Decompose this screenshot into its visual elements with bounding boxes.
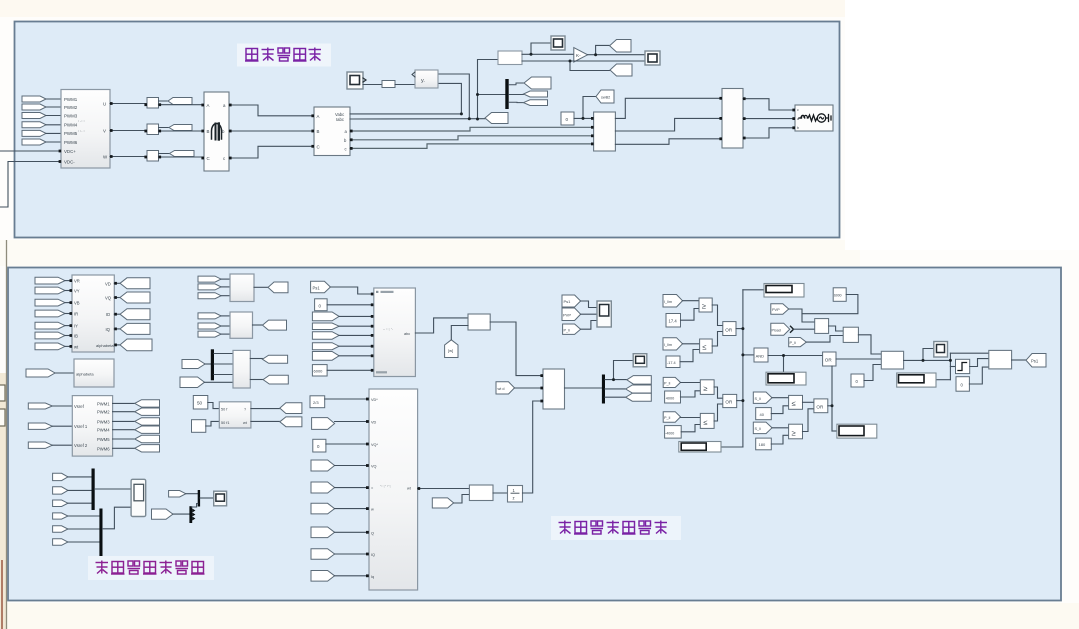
svg-text:2/3: 2/3 <box>313 400 319 405</box>
wire Vabc to PLL <box>350 83 461 114</box>
wire B1 to scope N <box>95 488 131 490</box>
svg-text:PWM1: PWM1 <box>97 401 110 406</box>
block U6 filter <box>722 89 743 149</box>
wire c1 to bar B3 <box>186 493 198 495</box>
constant 6000 <box>312 365 327 376</box>
svg-text:y.: y. <box>421 78 425 84</box>
from tag Pload <box>771 323 794 335</box>
wire UG to UH <box>490 322 543 376</box>
svg-text:alphabeta: alphabeta <box>76 372 94 377</box>
from tag Ps top <box>562 295 581 307</box>
goto tag b <box>524 91 548 97</box>
from tag j9 <box>311 571 335 582</box>
block UB alphabeta <box>74 359 114 387</box>
wire branch to display S2 <box>531 43 551 54</box>
svg-text:-4000: -4000 <box>665 431 674 435</box>
wire sat to UQ <box>970 359 989 367</box>
title 逆变器观测模块 <box>96 561 205 575</box>
svg-text:VDC+: VDC+ <box>64 149 76 154</box>
block mean <box>498 51 522 65</box>
wire PWM5 to U1 <box>46 132 61 134</box>
wire LE1 to OR1 <box>712 332 723 347</box>
block UC <box>230 274 254 302</box>
svg-text:OR: OR <box>825 358 833 363</box>
from tag IQ2 <box>312 352 339 361</box>
from tag j6 <box>311 503 335 514</box>
svg-text:OR: OR <box>816 405 824 410</box>
wire branch to swB2 tag <box>583 97 596 119</box>
block UG <box>468 314 490 330</box>
svg-text:IQ: IQ <box>106 327 111 332</box>
junction Iabc mean <box>476 118 479 121</box>
inport Vsref <box>28 403 52 409</box>
from tag Ps1 <box>311 281 331 292</box>
svg-text:VQ: VQ <box>371 465 377 469</box>
goto tag UE2 <box>263 375 288 384</box>
wire j9 to UJ <box>335 575 369 577</box>
wire Plim-c to S2 <box>806 336 843 343</box>
wire U6 out1 to load <box>743 99 795 110</box>
wire slim to PLL <box>395 84 415 86</box>
wire wtd to UH <box>515 387 544 389</box>
block white square M2 <box>192 420 206 433</box>
svg-text:OR: OR <box>725 400 733 405</box>
goto tag W <box>170 151 195 157</box>
wire -17.4 to LE1 <box>680 350 700 362</box>
inport Vsref1 <box>28 423 52 429</box>
wire k2 to UK <box>454 495 470 504</box>
svg-text:swB2: swB2 <box>601 96 610 100</box>
inport PWM5 <box>22 130 46 136</box>
wire U6 out2 to load <box>743 118 795 120</box>
block PLL <box>412 70 438 88</box>
wire 0d to UQ <box>969 367 988 384</box>
wire Iabc up branch <box>438 74 469 119</box>
inport b4 <box>53 513 68 519</box>
subsystem UL PWM generator <box>72 396 112 457</box>
goto tag UE1 <box>262 355 287 363</box>
svg-text:ID: ID <box>106 312 110 317</box>
svg-text:PWM5: PWM5 <box>64 131 78 136</box>
wire branch to scope C <box>614 361 634 380</box>
title 逆变器控制模块 <box>559 521 668 535</box>
block UH mux <box>543 369 565 409</box>
wire mean line B <box>522 60 645 62</box>
from tag Ilim1 <box>663 295 683 308</box>
svg-text:IR: IR <box>74 312 78 317</box>
wire ID2 to UF <box>339 345 374 347</box>
wire UE out1 <box>250 358 262 360</box>
svg-text:Vsref 2: Vsref 2 <box>74 443 88 448</box>
goto tag VQ <box>120 292 150 303</box>
display D5 <box>897 373 936 387</box>
inport IY <box>35 322 65 329</box>
svg-text:PVP: PVP <box>563 313 571 318</box>
svg-text:?: ? <box>244 408 246 412</box>
block UI unit delay <box>508 486 523 503</box>
wire 17.4 to GE1 <box>681 309 700 321</box>
block UD <box>230 312 253 338</box>
inport PWM3 <box>22 113 46 119</box>
wire Ps1 to UF <box>330 287 373 294</box>
wire bus C1 to tag 2 <box>605 388 626 390</box>
inport PWM4 <box>22 122 46 128</box>
svg-text:S_li: S_li <box>755 397 761 401</box>
goto tag C1b <box>626 385 652 393</box>
svg-text:VDC-: VDC- <box>64 159 75 164</box>
RLC source icon <box>799 114 831 122</box>
wire U to square1 <box>110 103 147 105</box>
from tag j5 <box>311 482 335 493</box>
from tag IB <box>312 323 339 330</box>
wire GE2 to OR2 <box>714 387 723 398</box>
bus bar B4 <box>189 506 192 523</box>
wire UQ to Ps1 tag <box>1012 359 1026 361</box>
goto tag Ps1 out <box>1026 354 1046 368</box>
svg-text:: :. :: : :. : <box>78 128 85 133</box>
logical AND <box>754 348 768 362</box>
subsystem UF power regulator <box>374 288 416 377</box>
wire j5 to UJ <box>335 487 369 489</box>
from tag PVP top <box>562 308 581 321</box>
inport to bus E2 <box>180 377 205 388</box>
svg-text:≤: ≤ <box>792 399 796 408</box>
svg-text:Iq: Iq <box>371 575 374 579</box>
junction AND out <box>782 354 785 357</box>
wire PWM1 to U1 <box>46 98 61 100</box>
inport b6 <box>53 539 68 546</box>
wire PWM4 to U1 <box>46 124 61 126</box>
wire w to UG <box>451 326 468 340</box>
inport c2 big <box>152 509 173 519</box>
svg-text:z: z <box>513 496 515 501</box>
wire c2 to bar B4 <box>173 513 190 515</box>
wire U5 out2 to U6 <box>615 118 722 131</box>
svg-text:VD*: VD* <box>371 398 378 402</box>
svg-text:PWM2: PWM2 <box>64 105 78 110</box>
svg-text:40: 40 <box>760 412 765 417</box>
goto tag ID <box>120 309 150 320</box>
svg-text:Ps1: Ps1 <box>564 299 572 304</box>
bus bar B2 <box>99 509 102 557</box>
svg-text:alphabeta: alphabeta <box>96 343 114 348</box>
inport VR <box>35 277 65 284</box>
wire 0j to UJ <box>326 443 369 445</box>
svg-text:: .: :: : .: : <box>78 118 85 123</box>
saturation block <box>956 359 970 373</box>
goto tag alphabeta <box>120 339 152 351</box>
goto tag UM2 <box>280 417 302 427</box>
svg-text:S_li: S_li <box>755 427 761 431</box>
block UK <box>469 485 493 501</box>
svg-text:VD: VD <box>371 421 377 425</box>
wire branch to scope P2 <box>923 349 934 361</box>
goto tag a big <box>524 77 551 89</box>
svg-text:P_li: P_li <box>664 381 670 385</box>
svg-text:PWM3: PWM3 <box>97 419 110 424</box>
svg-text:PWM3: PWM3 <box>64 113 78 118</box>
from tag wtd <box>496 382 515 394</box>
constant 0 j <box>313 439 326 452</box>
svg-text:0: 0 <box>566 117 569 122</box>
wire mean feed vertical <box>478 60 499 120</box>
from tag VQ <box>312 332 339 340</box>
inport VB <box>35 299 65 306</box>
bus bar B1 <box>92 469 95 511</box>
wire 50 to UM <box>208 403 220 409</box>
wire Ilim1 to GE1 <box>683 300 700 302</box>
from tag VD2 <box>312 418 335 430</box>
svg-text:Q: Q <box>371 531 374 535</box>
svg-text:6000: 6000 <box>314 369 324 374</box>
left window edge artifacts <box>0 240 7 629</box>
svg-text:AND: AND <box>756 353 765 358</box>
svg-text:VY: VY <box>74 289 80 294</box>
sum S2 <box>843 327 858 342</box>
svg-text:Pload: Pload <box>772 328 781 332</box>
svg-text:Vsref: Vsref <box>74 404 85 409</box>
wire PVP to scope T <box>581 313 597 315</box>
wire a to U5 <box>350 127 594 131</box>
wire scope chain <box>363 84 382 86</box>
inport to bus E1 <box>182 360 205 369</box>
from tag j8 <box>311 549 335 560</box>
svg-text:C: C <box>317 144 320 149</box>
svg-text:≤: ≤ <box>703 418 707 427</box>
wire inport to UB <box>55 372 74 374</box>
svg-text:-17.4: -17.4 <box>667 361 676 365</box>
wire IB to UF <box>339 325 374 327</box>
title 逆变器模块 <box>245 48 321 62</box>
display D3 <box>766 372 806 385</box>
wire j6 to UJ <box>335 508 369 510</box>
svg-text:P_li: P_li <box>790 341 796 345</box>
junction line B <box>569 60 572 63</box>
bus bar B3 <box>198 490 200 507</box>
svg-text:w: w <box>371 508 374 512</box>
block UE <box>233 350 250 388</box>
wire right net vertical <box>936 353 989 380</box>
port marks U1 <box>59 97 795 163</box>
bus bar C1 <box>602 375 605 404</box>
svg-text:Ps1: Ps1 <box>1031 358 1039 363</box>
wire 180 to GE3 <box>771 435 788 444</box>
wire LE3 to OR4 <box>803 401 814 403</box>
wire bus to tag a <box>509 83 524 85</box>
display D1 <box>764 284 804 298</box>
svg-text:PWM4: PWM4 <box>97 428 110 433</box>
from tag Slim1 <box>753 392 772 403</box>
svg-text:PWM5: PWM5 <box>97 437 110 442</box>
svg-text:≥: ≥ <box>703 384 707 393</box>
junction gain out <box>594 53 597 56</box>
goto tags PWM1-6 <box>135 400 160 407</box>
title halo observe <box>88 556 214 580</box>
from tag Ilim2 <box>663 338 683 350</box>
svg-text:IB: IB <box>74 334 78 339</box>
constant 50 <box>193 396 208 410</box>
wire UA VQ out <box>114 297 120 299</box>
inport IB <box>35 332 65 339</box>
block square2 <box>147 124 159 135</box>
svg-text:[w]: [w] <box>448 348 453 353</box>
goto tag U <box>168 98 192 105</box>
bus selector bar top <box>505 79 508 109</box>
from tag Plim a <box>663 377 680 387</box>
svg-text:abc: abc <box>404 332 410 336</box>
svg-text:PWM1: PWM1 <box>64 97 78 102</box>
junction right net <box>949 359 952 362</box>
from tag j4 <box>311 460 335 471</box>
svg-text:17.4: 17.4 <box>669 319 678 324</box>
inport Vsref2 <box>28 442 52 448</box>
svg-text:50: 50 <box>197 401 203 406</box>
goto tag T2 <box>610 64 632 76</box>
block U5 switch bank <box>594 112 616 151</box>
svg-text:50 f: 50 f <box>221 408 228 412</box>
svg-text:Iabc: Iabc <box>336 117 344 122</box>
scope S3 <box>645 51 660 65</box>
wire GE1 to OR1 <box>712 305 723 326</box>
constant 4000 <box>665 391 681 403</box>
wire Slim1 to LE3 <box>772 397 789 399</box>
svg-text:≤: ≤ <box>702 343 706 352</box>
wire bus C1 to tag 3 <box>605 396 626 398</box>
inverter module panel <box>15 22 840 238</box>
relational GE3 <box>789 424 803 439</box>
wire LE2 to OR2 <box>714 404 723 421</box>
wire UJ to UK <box>418 488 470 490</box>
constant -17.4 <box>666 356 680 368</box>
wire bridge a to meas A <box>229 105 314 116</box>
display D6 <box>837 424 877 438</box>
logical OR4 <box>814 399 828 413</box>
constant 0 top <box>561 112 574 125</box>
goto tag UD out <box>263 320 287 330</box>
logical OR2 <box>723 394 737 407</box>
goto tag Iabc <box>485 113 508 124</box>
junction OR2 <box>741 399 744 402</box>
port marks bottom panel <box>70 279 544 577</box>
subsystem UJ modulation <box>369 389 418 590</box>
wire 6000 to UF <box>327 369 374 371</box>
inport b1 <box>53 473 68 480</box>
junction bus feed <box>476 93 479 96</box>
from tag Plim top <box>563 324 581 334</box>
wires into bus E <box>205 363 211 365</box>
wire j8 to UJ <box>335 553 369 555</box>
relational LE3 <box>789 395 803 409</box>
IGBT icon <box>212 124 222 140</box>
wire OR net vertical <box>721 290 764 447</box>
scope P2 <box>934 342 948 358</box>
svg-text:4000: 4000 <box>666 396 674 400</box>
block square1 <box>147 98 159 109</box>
cluster C inports <box>198 276 221 282</box>
wire bus to tag b <box>509 94 524 96</box>
wire bus feed <box>478 94 506 96</box>
svg-text:Ps1: Ps1 <box>313 285 321 290</box>
junction const0 <box>582 117 585 120</box>
svg-text:VQ: VQ <box>105 296 112 301</box>
from tag k2 <box>432 498 453 508</box>
svg-text:PVP: PVP <box>772 308 780 312</box>
junction OR1 <box>741 327 744 330</box>
svg-text:c: c <box>797 108 799 112</box>
wire mean to gain <box>522 53 574 55</box>
svg-text:50 f1: 50 f1 <box>221 421 229 425</box>
inport PWM6 <box>22 139 46 145</box>
wire Pload to S1 <box>794 328 815 330</box>
wire Iabc net <box>350 118 485 120</box>
wire PWM6 to U1 <box>46 141 61 143</box>
gain triangle -K- <box>574 48 588 62</box>
svg-text:P_li: P_li <box>664 416 670 420</box>
title halo top <box>237 44 331 67</box>
wire bridge b to meas B <box>229 130 314 132</box>
junction OR4 <box>831 404 834 407</box>
wire S1 to S2 <box>829 326 844 331</box>
relational GE2 <box>700 380 714 395</box>
wire Plim-a to GE2 <box>681 382 701 384</box>
wire UA ID out <box>114 313 120 315</box>
inport PWM1 <box>22 96 46 102</box>
sum S1 <box>815 319 829 334</box>
svg-text:V: V <box>103 128 106 133</box>
svg-text:A: A <box>207 103 210 108</box>
wire square3 to goto tag W <box>159 153 170 155</box>
inport b3 <box>53 500 68 507</box>
junction Vabc <box>460 112 463 115</box>
title halo control <box>551 516 681 540</box>
svg-text:PWM2: PWM2 <box>97 410 110 415</box>
wires inports to bars <box>68 477 100 542</box>
wire square1 to bridge A <box>159 104 205 106</box>
wire b to U5 <box>350 136 594 140</box>
junction Iabc <box>468 117 471 120</box>
svg-text:c: c <box>345 146 347 151</box>
goto tag V <box>169 125 192 131</box>
constant 40 <box>756 408 772 420</box>
wire AND to OR3 <box>768 355 823 357</box>
svg-text:OR: OR <box>725 327 733 332</box>
svg-text:VB: VB <box>74 301 80 306</box>
wire UP out <box>904 359 951 361</box>
svg-text:A: A <box>317 114 320 119</box>
wire V to square2 <box>110 130 147 132</box>
block slim gain <box>382 81 395 88</box>
goto tag C1a <box>627 376 652 385</box>
wires bus E to UE <box>214 354 233 375</box>
wire 4000 to GE2 <box>681 391 701 397</box>
wire j4 to UJ <box>335 465 369 467</box>
block square3 <box>147 151 159 162</box>
logical OR3 <box>823 352 836 366</box>
wire Slim2 to GE3 <box>772 427 789 429</box>
goto tag UM1 <box>280 403 302 414</box>
wire VQ to UF <box>339 334 374 336</box>
svg-text:I_lim: I_lim <box>664 300 672 304</box>
relational GE1 <box>699 298 712 312</box>
svg-text:VR: VR <box>74 279 80 284</box>
inverter control/observe panel <box>8 268 1061 601</box>
scope S1 <box>347 72 366 89</box>
wire UD out <box>253 324 263 326</box>
wire 2/3 to UJ <box>325 398 369 400</box>
svg-text:wt d: wt d <box>498 387 505 391</box>
constant 17.4 <box>666 314 681 328</box>
wire PWM3 to U1 <box>46 115 61 117</box>
